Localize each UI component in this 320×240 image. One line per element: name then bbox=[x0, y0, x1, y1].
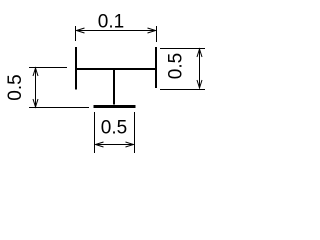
dimension left: extension line bottom bbox=[29, 107, 89, 109]
dimension left: dimension line bbox=[35, 68, 37, 107]
dimension top: arrow right bbox=[148, 28, 156, 33]
dimension bottom: dimension line bbox=[96, 144, 134, 146]
dimension left: arrow down bbox=[33, 99, 38, 107]
dimension bottom: arrow right bbox=[126, 142, 134, 147]
stub end bar (horizontal conductor bottom) bbox=[94, 105, 136, 108]
dimension right: extension line top bbox=[160, 48, 205, 50]
dimension left: extension line top bbox=[29, 67, 67, 69]
dimension right: extension line bottom bbox=[160, 89, 205, 91]
dimension bottom: extension line left bbox=[94, 112, 96, 153]
svg-text:0.5: 0.5 bbox=[101, 118, 127, 139]
port tick left (vertical bar P1) bbox=[75, 47, 77, 90]
dimension top: extension line left bbox=[75, 26, 77, 41]
microstrip main line (horizontal conductor) bbox=[75, 68, 157, 70]
dimension right: arrow up bbox=[197, 49, 202, 57]
dimension right: arrow down bbox=[197, 80, 202, 88]
svg-text:0.5: 0.5 bbox=[166, 53, 187, 79]
dimension bottom: arrow left bbox=[96, 142, 104, 147]
dimension left: arrow up bbox=[33, 68, 38, 76]
dimension right: dimension line bbox=[199, 49, 201, 88]
svg-text:0.1: 0.1 bbox=[98, 12, 124, 33]
dimension top: arrow left bbox=[77, 28, 85, 33]
dimension top: dimension line bbox=[77, 30, 156, 32]
dimension bottom: extension line right bbox=[134, 112, 136, 153]
dimension top: extension line right bbox=[156, 26, 158, 42]
svg-text:0.5: 0.5 bbox=[5, 74, 26, 100]
port tick right (vertical bar P2) bbox=[155, 47, 157, 88]
stub (vertical conductor down from center) bbox=[113, 68, 115, 105]
